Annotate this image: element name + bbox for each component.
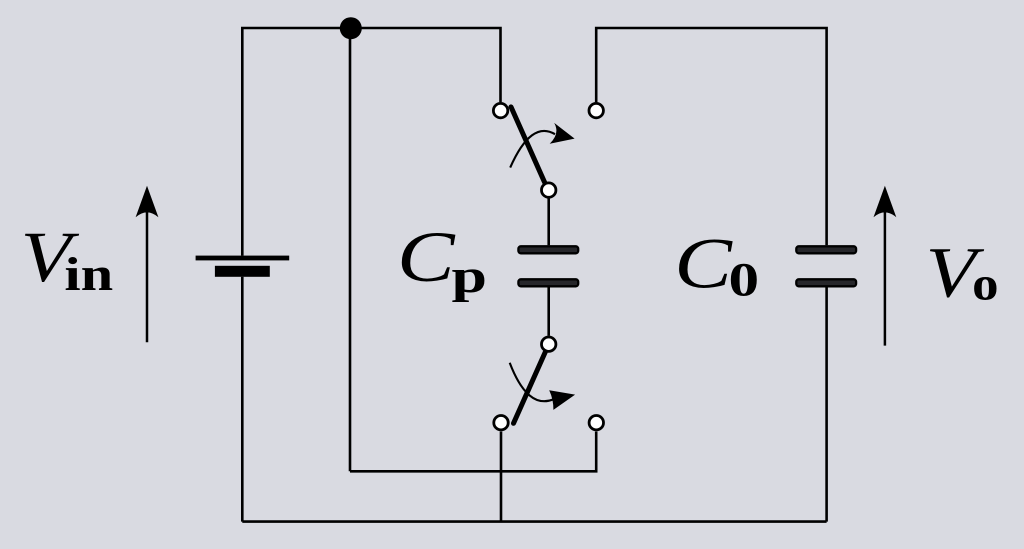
V_in polarity arrow bbox=[146, 212, 149, 342]
capacitor C0 bottom plate bbox=[796, 279, 856, 286]
switch S1 pole terminal bbox=[542, 183, 556, 197]
switch S2 left throw terminal bbox=[494, 416, 508, 430]
wire: Cp bottom plate down to bottom switch pole bbox=[547, 288, 550, 336]
switch S1 lever bbox=[511, 107, 545, 182]
svg-text:C: C bbox=[397, 218, 456, 298]
node A junction dot bbox=[340, 17, 362, 39]
switch S2 pole terminal bbox=[542, 337, 556, 351]
battery V_in bottom plate bbox=[215, 266, 270, 277]
capacitor C0 top plate bbox=[796, 246, 856, 253]
switch S2 lever bbox=[514, 352, 546, 423]
switch S2 rotation arrowhead bbox=[549, 390, 575, 410]
wire: battery bottom lead down to bottom rail bbox=[241, 277, 244, 522]
wire: top switch right throw up to top rail and over to C0 top lead bbox=[596, 28, 826, 245]
svg-text:o: o bbox=[972, 256, 998, 309]
wire: top switch pole down to Cp top plate bbox=[547, 199, 550, 246]
svg-text:in: in bbox=[64, 247, 113, 301]
wire: bottom rail bbox=[242, 520, 826, 523]
wire: bottom switch left throw down to bottom rail bbox=[500, 432, 503, 522]
svg-text:p: p bbox=[452, 250, 488, 303]
switch S2 right throw terminal bbox=[589, 416, 603, 430]
switch S1 rotation arrowhead bbox=[550, 123, 575, 144]
wire: battery top lead up and top rail to top switch left throw bbox=[242, 28, 500, 256]
switch S1 right throw terminal bbox=[589, 103, 603, 117]
svg-text:C: C bbox=[674, 224, 733, 304]
switch S2 rotation arc bbox=[510, 363, 553, 401]
V_o polarity arrow bbox=[884, 212, 887, 346]
capacitor Cp top plate bbox=[518, 246, 578, 253]
wire: C0 bottom lead down to bottom rail bbox=[825, 288, 828, 522]
capacitor Cp bottom plate bbox=[518, 279, 578, 286]
switch S1 left throw terminal bbox=[493, 103, 507, 117]
switch S1 rotation arc bbox=[510, 131, 555, 168]
battery V_in top plate bbox=[196, 256, 290, 261]
wire: node vertical from top rail down to middle rail bbox=[349, 28, 352, 471]
wire: middle rail from node vertical to bottom switch right throw bbox=[350, 432, 596, 472]
svg-text:0: 0 bbox=[729, 253, 760, 306]
